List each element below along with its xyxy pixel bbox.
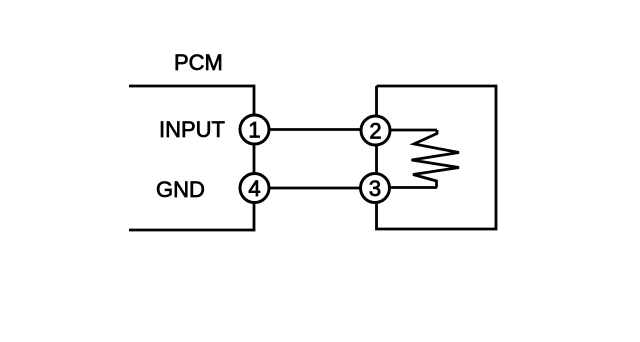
- wire: pin4 to pin3: [254, 187, 376, 190]
- svg-text:3: 3: [369, 176, 381, 201]
- svg-text:PCM: PCM: [174, 50, 223, 75]
- wire: resistor bottom lead: [377, 186, 438, 189]
- pin 2: [361, 116, 390, 145]
- svg-text:2: 2: [369, 119, 381, 144]
- wire: resistor top lead: [377, 129, 438, 132]
- svg-text:4: 4: [248, 176, 260, 201]
- svg-text:INPUT: INPUT: [159, 117, 225, 142]
- pin 1: [240, 115, 269, 144]
- resistor: [412, 130, 460, 188]
- svg-text:GND: GND: [156, 177, 205, 202]
- wire: PCM connector right vertical bus: [253, 85, 256, 232]
- pin 3: [361, 174, 390, 203]
- svg-text:1: 1: [248, 118, 260, 143]
- pin 2 circle: [361, 116, 390, 145]
- pin 4 circle: [240, 174, 269, 203]
- sensor box outline: [377, 86, 497, 229]
- wire: PCM connector top horizontal: [129, 85, 254, 88]
- wire: PCM connector bottom horizontal: [129, 229, 254, 232]
- wire: pin1 to pin2: [254, 128, 376, 131]
- pin 3 circle: [361, 174, 390, 203]
- pin 1 circle: [240, 115, 269, 144]
- pin 4: [240, 174, 269, 203]
